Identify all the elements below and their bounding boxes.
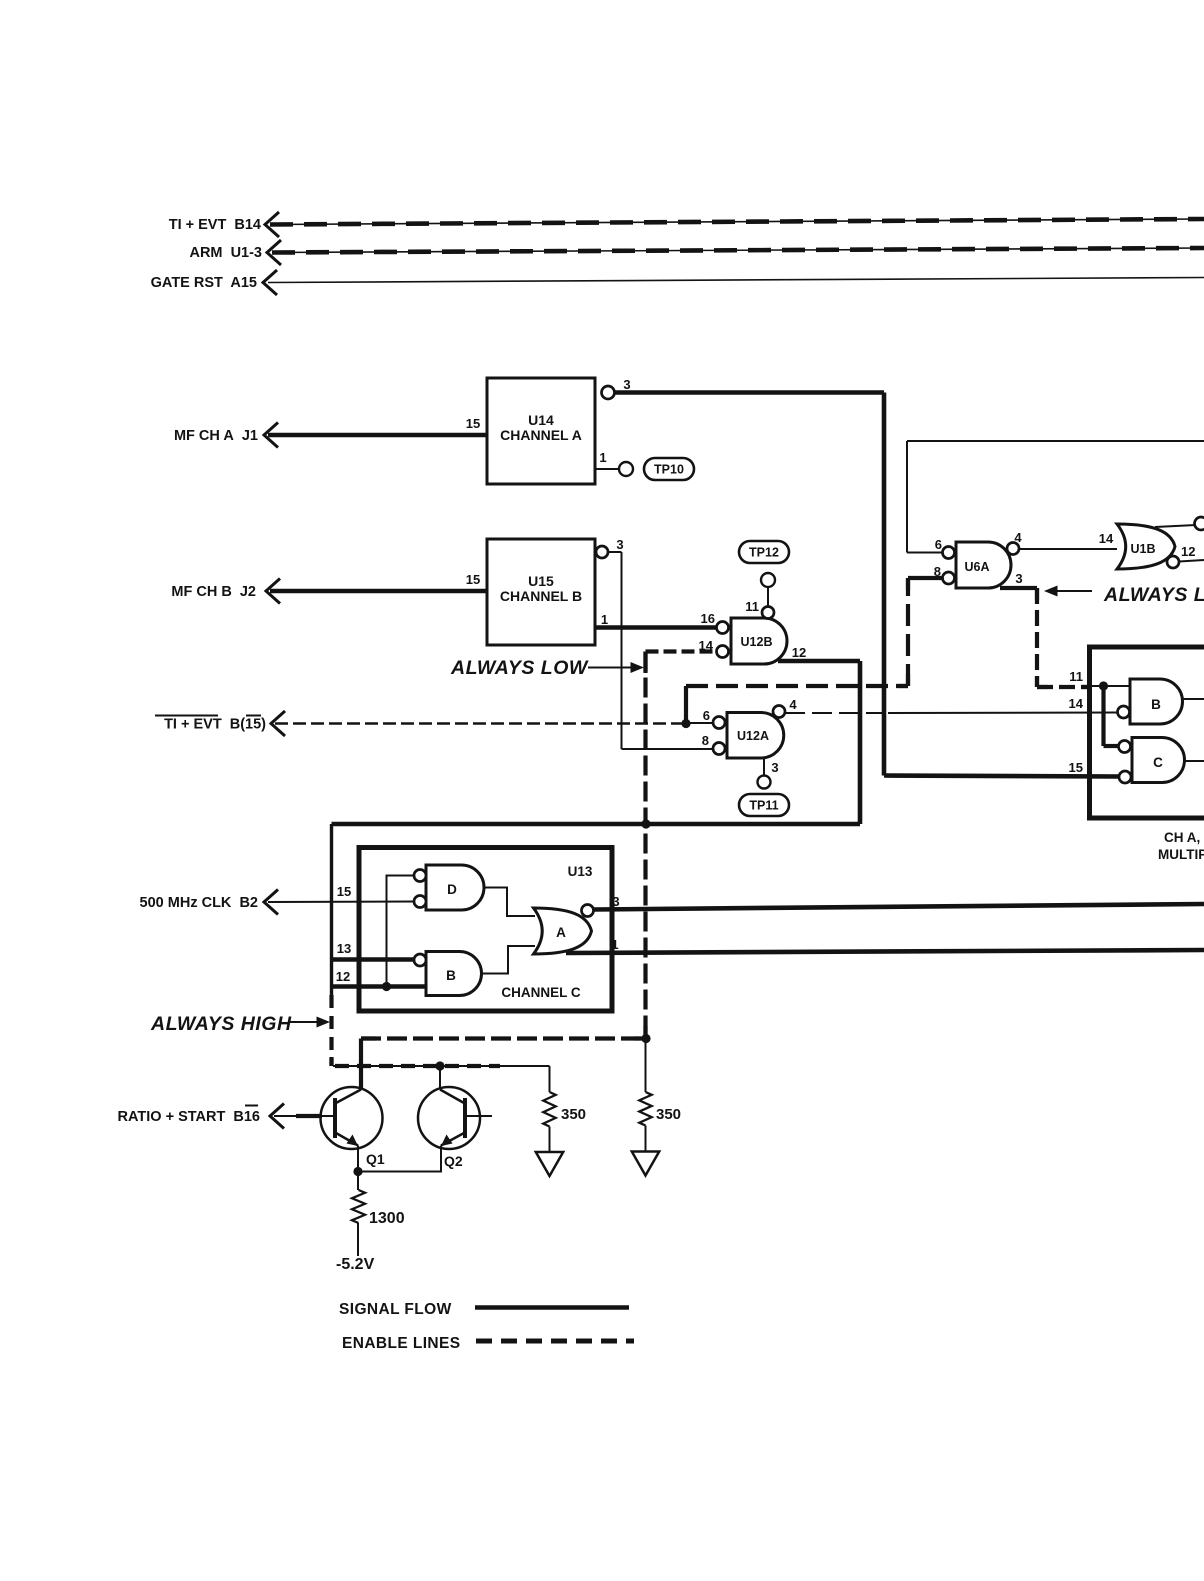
wire ARM U1-3 enable line bbox=[272, 248, 1204, 253]
svg-text:6: 6 bbox=[935, 537, 942, 552]
wire U15 pin 1 to U12B pin 16 bbox=[595, 625, 717, 630]
svg-text:TP11: TP11 bbox=[749, 799, 778, 813]
gate U1B (OR) bbox=[1117, 524, 1175, 569]
bubble U12A pin 6 bbox=[713, 717, 725, 729]
bubble U6A pin 8 bbox=[943, 572, 955, 584]
bubble U12A pin 8 bbox=[713, 743, 725, 755]
wire to resistor R350a bbox=[549, 1066, 551, 1092]
ground symbol a bbox=[536, 1152, 563, 1176]
wire pin 11 to gate C input bbox=[1101, 686, 1105, 746]
svg-text:U6A: U6A bbox=[964, 560, 989, 574]
IC U14 CHANNEL A bbox=[487, 378, 595, 484]
connector arrow GATE RST A15 bbox=[263, 270, 277, 295]
wire U13 pin 12 bbox=[332, 984, 427, 989]
gate D (U13) bbox=[426, 865, 484, 910]
bubble gate B lower input bbox=[1118, 706, 1130, 718]
svg-text:15: 15 bbox=[337, 884, 351, 899]
svg-text:TI + EVT B14: TI + EVT B14 bbox=[169, 217, 261, 233]
wire gate D output to gate A bbox=[484, 888, 535, 917]
bubble U12B pin 14 bbox=[717, 646, 729, 658]
connector arrow ARM U1-3 bbox=[267, 240, 281, 265]
transistor Q1 bbox=[321, 1087, 383, 1149]
gate B (U13) bbox=[426, 952, 482, 996]
enable wire vertical x645 bbox=[643, 652, 647, 1039]
bubble U6A pin 4 bbox=[1007, 543, 1019, 555]
svg-text:Q2: Q2 bbox=[444, 1153, 463, 1169]
svg-text:15: 15 bbox=[466, 416, 480, 431]
wire U6A pin 3 enable bbox=[1000, 586, 1037, 590]
enable wire into U6A pin 8 bbox=[908, 576, 943, 580]
svg-text:CH A, B, C: CH A, B, C bbox=[1164, 830, 1204, 845]
bubble gate C lower input bbox=[1119, 771, 1131, 783]
bubble gate D upper input bbox=[414, 870, 426, 882]
test point TP12 bbox=[739, 541, 789, 563]
junction node Q2 collector bbox=[435, 1061, 444, 1070]
svg-text:16: 16 bbox=[701, 611, 715, 626]
junction node x646 y824 bbox=[641, 819, 650, 828]
gate U12A bbox=[727, 713, 784, 759]
wire Q1 base enable bbox=[274, 1115, 335, 1117]
test point circle TP11 bbox=[758, 776, 771, 789]
svg-text:500 MHz CLK B2: 500 MHz CLK B2 bbox=[140, 895, 258, 911]
wire TI+EVT B(15) dashed bbox=[275, 722, 682, 725]
junction node x646 y1038 bbox=[641, 1034, 650, 1043]
test point TP10 bbox=[644, 458, 694, 480]
wire TP12 stem bbox=[767, 587, 769, 607]
test point circle TP10 bbox=[619, 462, 633, 476]
svg-text:4: 4 bbox=[789, 697, 797, 712]
svg-text:ARM U1-3: ARM U1-3 bbox=[189, 245, 262, 261]
junction node TI+EVT/U12A pin 6 bbox=[681, 719, 690, 728]
wire dot to U12A pin 6 bbox=[690, 722, 714, 724]
transistor Q2 bbox=[418, 1087, 480, 1149]
wire Q1 collector riser bbox=[359, 1039, 363, 1090]
wire Q2 collector riser bbox=[439, 1066, 441, 1088]
svg-text:U13: U13 bbox=[568, 864, 593, 879]
wire U12B pin 12 output bbox=[778, 659, 860, 664]
wire U12A pin 4 toward multiplexer pin 14 bbox=[785, 712, 888, 714]
wire x646 to resistor R350b bbox=[645, 1039, 647, 1093]
connector arrow MF CH B J2 bbox=[266, 579, 280, 604]
resistor R350a bbox=[543, 1092, 555, 1127]
wire U6A pin 6 net from top right bbox=[907, 552, 943, 554]
wire GATE RST A15 bbox=[268, 278, 1204, 283]
svg-text:ALWAYS LOW: ALWAYS LOW bbox=[450, 657, 589, 679]
svg-text:MF CH A J1: MF CH A J1 bbox=[174, 428, 258, 444]
test point TP11 bbox=[739, 794, 789, 816]
wire mux pin 11 internal bbox=[1092, 685, 1129, 687]
wire U14 pin 1 to TP10 bbox=[595, 468, 619, 470]
wire vertical x884 bbox=[882, 393, 887, 776]
gate A (U13 OR) bbox=[534, 908, 592, 954]
svg-text:Q1: Q1 bbox=[366, 1151, 385, 1167]
svg-text:11: 11 bbox=[745, 599, 759, 614]
connector arrow TI+EVT B(15) bbox=[271, 711, 285, 736]
svg-text:SIGNAL FLOW: SIGNAL FLOW bbox=[339, 1301, 452, 1318]
svg-text:TP10: TP10 bbox=[654, 463, 684, 477]
svg-text:U1B: U1B bbox=[1130, 542, 1155, 556]
bubble at right edge bbox=[1195, 517, 1204, 530]
wire U15 pin 15 to MF CH B bbox=[270, 589, 487, 594]
svg-text:GATE RST A15: GATE RST A15 bbox=[151, 275, 257, 291]
svg-text:ALWAYS LOW: ALWAYS LOW bbox=[1103, 584, 1204, 606]
connector arrow MF CH A J1 bbox=[264, 423, 278, 448]
junction node pin 12 feedback bbox=[382, 982, 391, 991]
svg-text:3: 3 bbox=[616, 537, 623, 552]
gate U12B bbox=[731, 618, 787, 664]
wire U13 pin 1 output bbox=[566, 950, 1204, 953]
enable wire y1038 to Q1 collector bbox=[361, 1036, 646, 1040]
svg-text:TI + EVT B(15): TI + EVT B(15) bbox=[164, 717, 266, 733]
wire U15 pin 3 to U12A pin 8 bbox=[608, 551, 622, 553]
wire U14 pin 3 output bbox=[615, 390, 885, 395]
connector arrow RATIO + START bbox=[270, 1104, 284, 1129]
bubble gate B input bbox=[414, 954, 426, 966]
resistor R350b bbox=[639, 1092, 651, 1126]
svg-text:1: 1 bbox=[611, 937, 618, 952]
enable riser x686 bbox=[684, 686, 688, 725]
gate C (mux) bbox=[1132, 738, 1185, 783]
wire Q2 base stub bbox=[465, 1115, 492, 1117]
wire U1B top output bbox=[1155, 525, 1196, 527]
svg-text:ENABLE LINES: ENABLE LINES bbox=[342, 1335, 460, 1352]
bubble gate A NOR output (pin 3) bbox=[582, 905, 594, 917]
connector arrow 500 MHz CLK bbox=[264, 890, 278, 915]
gate U6A bbox=[956, 542, 1011, 588]
bubble U1B pin 12 bbox=[1167, 556, 1179, 568]
bubble gate D lower input bbox=[414, 896, 426, 908]
svg-text:TP12: TP12 bbox=[749, 546, 779, 560]
wire TI+EVT B14 enable line bbox=[270, 219, 1204, 225]
svg-text:4: 4 bbox=[1014, 530, 1022, 545]
svg-text:14: 14 bbox=[1069, 696, 1084, 711]
bubble U12B pin 16 bbox=[717, 622, 729, 634]
svg-text:U14: U14 bbox=[528, 412, 554, 428]
svg-text:1: 1 bbox=[599, 450, 606, 465]
wire gate B output to gate A bbox=[482, 946, 536, 974]
wire U14 pin 15 to MF CH A bbox=[268, 433, 487, 438]
bubble U6A pin 6 bbox=[943, 547, 955, 559]
wire TP11 stem bbox=[763, 758, 765, 775]
svg-text:D: D bbox=[447, 882, 457, 897]
svg-text:MULTIPLEXER: MULTIPLEXER bbox=[1158, 847, 1204, 862]
wire vertical x331 (always high) bbox=[330, 824, 333, 995]
svg-text:CHANNEL B: CHANNEL B bbox=[500, 588, 582, 604]
wire Q2 emitter bbox=[358, 1146, 441, 1172]
svg-text:14: 14 bbox=[1099, 531, 1114, 546]
svg-text:15: 15 bbox=[1069, 760, 1083, 775]
annotation ALWAYS LOW (right) bbox=[1044, 586, 1058, 597]
svg-text:3: 3 bbox=[1015, 571, 1022, 586]
enable wire to U12B pin 14 bbox=[646, 649, 718, 653]
bubble U12B pin 11 bbox=[762, 607, 774, 619]
junction node pin 11 bbox=[1099, 681, 1108, 690]
junction node emitters bbox=[353, 1167, 362, 1176]
svg-text:A: A bbox=[556, 925, 566, 940]
wire mux pin 15 feed bbox=[884, 776, 1120, 777]
wire vertical x860 (signal box right) bbox=[858, 661, 863, 824]
inverter bubble U15 pin 3 bbox=[596, 546, 608, 558]
wire U13 pin 13 bbox=[332, 957, 415, 962]
svg-text:6: 6 bbox=[703, 708, 710, 723]
svg-text:U12A: U12A bbox=[737, 729, 769, 743]
svg-text:350: 350 bbox=[561, 1106, 586, 1123]
svg-text:U12B: U12B bbox=[741, 635, 773, 649]
svg-text:8: 8 bbox=[934, 564, 941, 579]
svg-text:U15: U15 bbox=[528, 573, 554, 589]
wire gate B output bbox=[1183, 698, 1204, 700]
svg-text:13: 13 bbox=[337, 941, 351, 956]
svg-text:ALWAYS HIGH: ALWAYS HIGH bbox=[150, 1013, 292, 1035]
bubble gate C upper input bbox=[1119, 741, 1131, 753]
gate B (mux) bbox=[1130, 679, 1183, 724]
svg-text:CHANNEL C: CHANNEL C bbox=[501, 985, 581, 1000]
enable wire y686 to U6A bbox=[686, 684, 908, 688]
svg-text:350: 350 bbox=[656, 1106, 681, 1123]
wire gate D upper input feedback bbox=[387, 876, 415, 987]
svg-text:3: 3 bbox=[771, 760, 778, 775]
svg-text:MF CH B J2: MF CH B J2 bbox=[171, 584, 256, 600]
wire U13 pin 3 output bbox=[593, 904, 1204, 910]
svg-text:1: 1 bbox=[601, 612, 608, 627]
svg-text:15: 15 bbox=[466, 572, 480, 587]
bubble U12A pin 4 bbox=[773, 706, 785, 718]
svg-text:B: B bbox=[446, 968, 456, 983]
wire U6A pin 4 to U1B pin 14 bbox=[1019, 548, 1117, 550]
svg-text:3: 3 bbox=[623, 377, 630, 392]
svg-text:12: 12 bbox=[1181, 544, 1195, 559]
svg-text:1300: 1300 bbox=[369, 1210, 405, 1227]
enable riser x908 bbox=[906, 578, 910, 686]
IC U13 CHANNEL C box bbox=[359, 848, 612, 1012]
svg-text:B: B bbox=[1151, 697, 1161, 712]
svg-text:8: 8 bbox=[702, 733, 709, 748]
wire U1B pin 12 output bbox=[1179, 560, 1204, 562]
wire y1066 collector rail bbox=[333, 1065, 550, 1067]
wire gate C output bbox=[1185, 760, 1204, 762]
inverter bubble U14 pin 3 bbox=[602, 386, 615, 399]
resistor R1300 bbox=[357, 1172, 359, 1191]
svg-text:11: 11 bbox=[1069, 669, 1083, 684]
svg-text:RATIO + START B16: RATIO + START B16 bbox=[118, 1109, 260, 1125]
svg-text:3: 3 bbox=[612, 894, 619, 909]
wire signal box bottom y824 bbox=[332, 822, 861, 827]
connector arrow TI+EVT B14 bbox=[265, 212, 279, 237]
wire U13 pin 15 (CLK) bbox=[268, 901, 415, 904]
CH A,B,C multiplexer box bbox=[1090, 647, 1204, 735]
svg-text:CHANNEL A: CHANNEL A bbox=[500, 427, 582, 443]
IC U15 CHANNEL B bbox=[487, 539, 595, 645]
wire Q1 emitter bbox=[357, 1146, 359, 1173]
ground symbol b bbox=[632, 1152, 659, 1176]
svg-text:12: 12 bbox=[792, 645, 806, 660]
test point circle TP12 bbox=[761, 573, 775, 587]
svg-text:-5.2V: -5.2V bbox=[336, 1256, 375, 1273]
svg-text:12: 12 bbox=[336, 969, 350, 984]
svg-text:C: C bbox=[1153, 755, 1163, 770]
